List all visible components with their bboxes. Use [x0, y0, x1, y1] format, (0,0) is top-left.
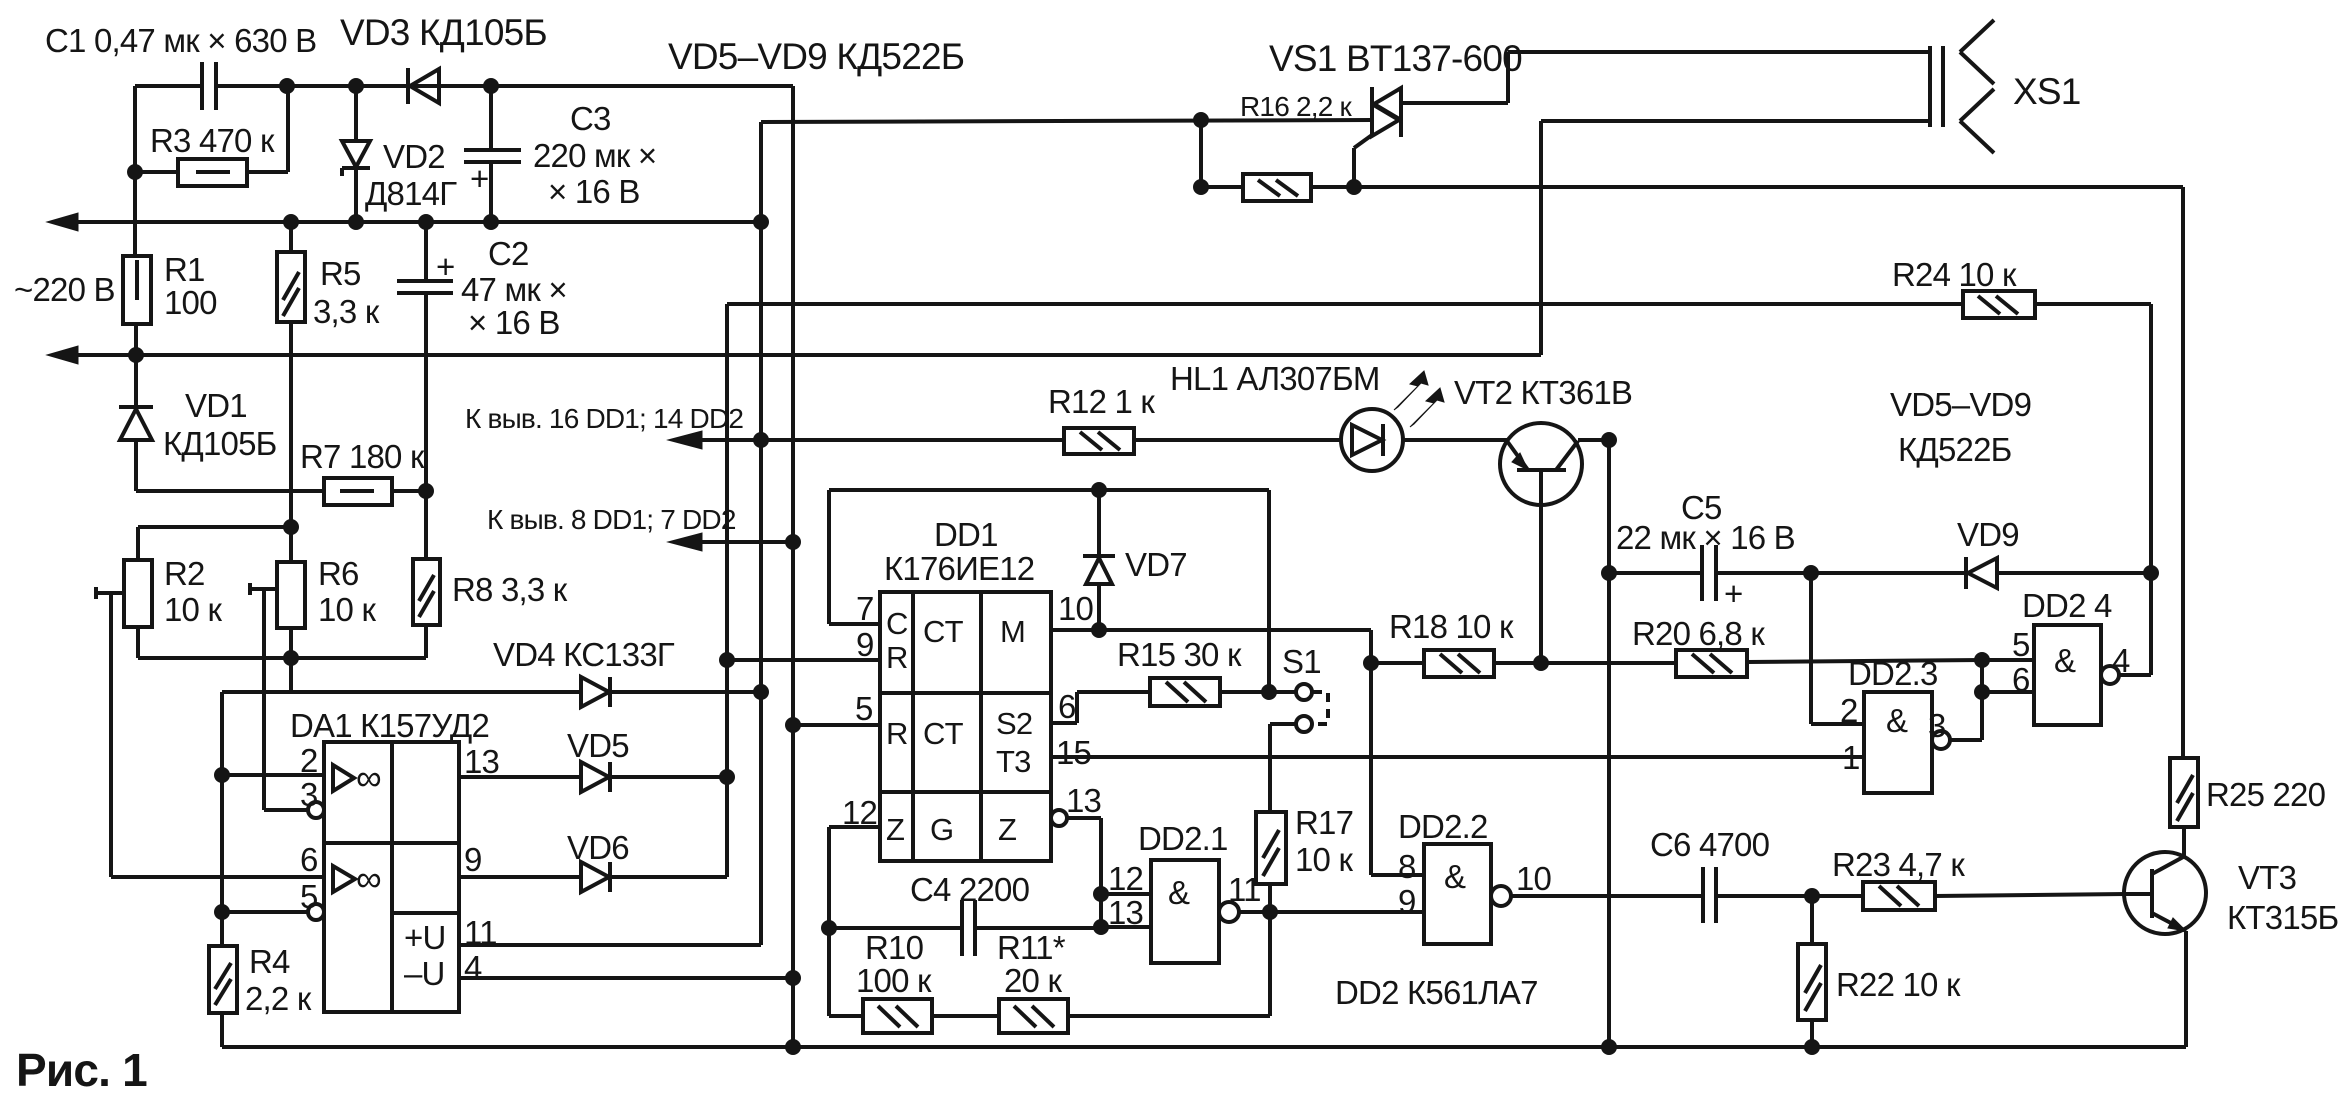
- wire R8 bottom: [424, 625, 428, 658]
- svg-text:~220 В: ~220 В: [14, 271, 115, 308]
- resistor R10: [829, 1014, 863, 1018]
- node 761/R12 row: [753, 432, 769, 448]
- node R3 left: [127, 164, 143, 180]
- pin 10: [1491, 886, 1511, 906]
- svg-text:R: R: [886, 640, 908, 675]
- node top rail / C3: [483, 78, 499, 94]
- wire R1 bottom: [134, 324, 138, 355]
- wire R5 top: [289, 222, 293, 252]
- wire pin4 row: [459, 976, 795, 980]
- node pin2: [214, 767, 230, 783]
- svg-text:13: 13: [1066, 782, 1101, 819]
- node top rail / R3 riser: [279, 78, 295, 94]
- wire R2 top loop: [136, 527, 140, 560]
- arrow to 8 DD1 7 DD2: [680, 540, 793, 544]
- svg-text:3: 3: [1928, 707, 1946, 744]
- wire bottom bus R2 R6 R8: [136, 627, 140, 658]
- svg-text:R12 1 к: R12 1 к: [1048, 383, 1155, 420]
- svg-text:DD2.2: DD2.2: [1398, 808, 1488, 845]
- svg-text:S1: S1: [1282, 643, 1321, 680]
- wire pin10 row: [1051, 628, 1371, 632]
- svg-text:R1: R1: [164, 251, 205, 288]
- wire pin13 row: [459, 775, 581, 779]
- svg-text:R18 10 к: R18 10 к: [1389, 608, 1514, 645]
- resistor R7: [324, 478, 392, 505]
- diode VD1: [134, 355, 138, 407]
- resistor R18: [1371, 661, 1424, 665]
- wire pin3 vertical: [262, 589, 266, 810]
- svg-text:R25 220: R25 220: [2206, 776, 2326, 813]
- node VD9 / R24 riser: [2143, 565, 2159, 581]
- svg-text:К выв. 16 DD1; 14 DD2: К выв. 16 DD1; 14 DD2: [465, 403, 743, 434]
- node DD2.1 out / R17: [1262, 904, 1278, 920]
- svg-text:КТ315Б: КТ315Б: [2227, 899, 2338, 936]
- svg-text:VD5: VD5: [567, 727, 629, 764]
- svg-text:+: +: [436, 248, 454, 285]
- LED HL1: [1341, 409, 1403, 471]
- wire R5 bottom to R6: [289, 322, 293, 562]
- svg-text:R22 10 к: R22 10 к: [1836, 966, 1961, 1003]
- svg-text:CT: CT: [923, 614, 964, 649]
- node C5 / DD2.3 pin2 riser: [1803, 565, 1819, 581]
- wire R3 right riser: [286, 86, 290, 172]
- svg-text:5: 5: [300, 878, 318, 915]
- svg-text:Д814Г: Д814Г: [365, 175, 457, 212]
- svg-text:× 16 В: × 16 В: [548, 173, 640, 210]
- svg-text:VD7: VD7: [1125, 546, 1187, 583]
- wire DD1 pin5 row: [793, 723, 880, 727]
- resistor R1: [123, 256, 151, 324]
- diode VD9: [1964, 557, 1968, 589]
- node R2/R6 top: [283, 519, 299, 535]
- wire DA1 left column: [220, 692, 224, 946]
- svg-text:Рис. 1: Рис. 1: [16, 1044, 147, 1096]
- svg-text:Z: Z: [998, 812, 1016, 847]
- svg-text:C3: C3: [570, 100, 611, 137]
- node R7 right / C2 / R8: [418, 483, 434, 499]
- svg-text:2: 2: [1840, 692, 1858, 729]
- pin 8: [1371, 873, 1424, 877]
- wire pin11 row: [459, 943, 761, 947]
- svg-text:G: G: [930, 812, 953, 847]
- svg-text:–U: –U: [404, 955, 445, 992]
- svg-text:VD2: VD2: [383, 138, 445, 175]
- node C4 row: [821, 920, 837, 936]
- wire R6 tap: [250, 587, 277, 591]
- svg-text:VT2 КТ361В: VT2 КТ361В: [1454, 374, 1632, 411]
- svg-text:6: 6: [1058, 688, 1076, 725]
- node R18/VT2 base: [1533, 655, 1549, 671]
- capacitor C5: [1700, 545, 1704, 601]
- svg-text:DD2.3: DD2.3: [1848, 655, 1938, 692]
- resistor R3: [178, 159, 247, 186]
- svg-text:20 к: 20 к: [1004, 962, 1062, 999]
- resistor R25: [2170, 758, 2198, 827]
- svg-text:R: R: [886, 716, 908, 751]
- svg-text:R7 180 к: R7 180 к: [300, 438, 425, 475]
- node 795/bottom rail: [785, 1039, 801, 1055]
- node VD5 row: [719, 769, 735, 785]
- wire R4 bottom to rail: [220, 1013, 224, 1047]
- svg-text:&: &: [2054, 642, 2076, 679]
- svg-text:VD4 КС133Г: VD4 КС133Г: [493, 636, 675, 673]
- wire pin15 row: [1051, 755, 1864, 759]
- svg-text:+: +: [1724, 575, 1742, 612]
- diode VD3: [406, 68, 410, 104]
- node collector rail / C5: [1601, 565, 1617, 581]
- svg-text:R20 6,8 к: R20 6,8 к: [1632, 615, 1765, 652]
- svg-text:6: 6: [300, 841, 318, 878]
- node DD2.4 pin5: [1974, 652, 1990, 668]
- wire triac to XS1 top: [1506, 52, 1510, 103]
- node pin5: [214, 904, 230, 920]
- diode VD4: [581, 677, 609, 707]
- svg-text:9: 9: [464, 841, 482, 878]
- svg-text:DD2 4: DD2 4: [2022, 587, 2112, 624]
- svg-text:M: M: [1000, 614, 1025, 649]
- node R16 riser: [1193, 112, 1209, 128]
- svg-text:R16 2,2 к: R16 2,2 к: [1240, 91, 1352, 122]
- svg-text:22 мк × 16 В: 22 мк × 16 В: [1616, 519, 1795, 556]
- node rail1 / C2: [418, 214, 434, 230]
- svg-text:DA1 К157УД2: DA1 К157УД2: [290, 707, 489, 744]
- gate DD2.4: [2034, 625, 2101, 725]
- svg-text:XS1: XS1: [2013, 71, 2081, 112]
- wire VD4 row: [222, 690, 581, 694]
- capacitor C3: [489, 86, 493, 150]
- switch S1: [1296, 684, 1312, 700]
- svg-text:VD3 КД105Б: VD3 КД105Б: [340, 12, 547, 53]
- svg-text:9: 9: [1398, 883, 1416, 920]
- wire mains rail 2 y=355: [60, 353, 1541, 357]
- wire R2 tap: [96, 591, 124, 595]
- svg-text:4: 4: [464, 949, 482, 986]
- svg-text:R3 470 к: R3 470 к: [150, 122, 275, 159]
- svg-text:10 к: 10 к: [164, 591, 222, 628]
- wire mains rail 1 y=222: [60, 220, 761, 224]
- node rail1 / R5: [283, 214, 299, 230]
- wire pin2 row: [222, 773, 324, 777]
- node pin12 DD2.1: [1093, 886, 1109, 902]
- resistor R15: [1150, 678, 1220, 706]
- svg-text:47 мк ×: 47 мк ×: [461, 271, 567, 308]
- svg-text:2: 2: [300, 742, 318, 779]
- node DD2.4 pin6: [1974, 684, 1990, 700]
- node 795/DD1 pin5: [785, 717, 801, 733]
- svg-text:12: 12: [1108, 860, 1143, 897]
- node 761/VD4 row: [753, 684, 769, 700]
- capacitor C1: [200, 62, 204, 110]
- pin 5: [308, 904, 324, 920]
- svg-text:9: 9: [856, 626, 874, 663]
- svg-text:× 16 В: × 16 В: [468, 304, 560, 341]
- resistor R11: [932, 1014, 999, 1018]
- svg-text:К выв. 8 DD1; 7 DD2: К выв. 8 DD1; 7 DD2: [487, 504, 736, 535]
- svg-text:C: C: [886, 606, 908, 641]
- node rail2 / R1 VD1: [128, 347, 144, 363]
- svg-text:1: 1: [1842, 739, 1860, 776]
- svg-text:3: 3: [300, 776, 318, 813]
- svg-text:+: +: [470, 160, 488, 197]
- svg-text:C6 4700: C6 4700: [1650, 826, 1770, 863]
- svg-text:HL1 АЛ307БМ: HL1 АЛ307БМ: [1170, 360, 1380, 397]
- svg-text:10: 10: [1516, 860, 1552, 897]
- svg-text:R5: R5: [320, 255, 361, 292]
- connector XS1: [1928, 46, 1932, 127]
- resistor R24: [1963, 291, 2035, 318]
- svg-text:13: 13: [464, 743, 499, 780]
- wire vertical x=727: [725, 304, 729, 877]
- node collector rail / bottom: [1601, 1039, 1617, 1055]
- gate DD2.3: [1864, 692, 1932, 793]
- svg-text:+U: +U: [404, 919, 446, 956]
- svg-text:∞: ∞: [356, 858, 381, 899]
- svg-text:C4 2200: C4 2200: [910, 871, 1030, 908]
- diode VD7: [1097, 490, 1101, 556]
- svg-text:100 к: 100 к: [856, 962, 932, 999]
- wire pin9 row: [459, 875, 581, 879]
- IC DD1: [880, 592, 1051, 861]
- wire DD1 pin12 loop: [829, 825, 880, 829]
- svg-text:220 мк ×: 220 мк ×: [533, 137, 656, 174]
- svg-text:R6: R6: [318, 555, 359, 592]
- wire x=761 top corner to triac: [761, 120, 1372, 122]
- svg-text:C1 0,47 мк × 630 В: C1 0,47 мк × 630 В: [45, 22, 316, 59]
- resistor R8: [413, 559, 440, 625]
- svg-text:R23 4,7 к: R23 4,7 к: [1832, 846, 1965, 883]
- wire C1 left vertical: [133, 86, 137, 256]
- svg-text:∞: ∞: [356, 757, 381, 798]
- svg-text:3,3 к: 3,3 к: [313, 293, 380, 330]
- resistor R17: [1256, 812, 1286, 884]
- svg-text:R8 3,3 к: R8 3,3 к: [452, 571, 568, 608]
- svg-text:DD2 К561ЛА7: DD2 К561ЛА7: [1335, 974, 1538, 1011]
- svg-text:R4: R4: [249, 943, 290, 980]
- capacitor C6: [1701, 867, 1705, 923]
- node R16 / gate: [1346, 179, 1362, 195]
- node R22 / bottom rail: [1804, 1039, 1820, 1055]
- svg-text:CT: CT: [923, 716, 964, 751]
- triac VS1: [1370, 87, 1374, 137]
- wire R6 bottom to VD4 row: [289, 628, 293, 692]
- wire pin5 row: [222, 910, 308, 914]
- wire C5 row: [1609, 571, 1702, 575]
- resistor R2: [124, 560, 152, 627]
- resistor R20: [1676, 650, 1747, 677]
- arrow to 16 DD1 14 DD2: [680, 438, 761, 442]
- wire R12 row: [761, 438, 1064, 442]
- wire top rail y=86: [135, 84, 202, 88]
- wire pin6 left vertical: [109, 593, 113, 877]
- pin 3: [308, 802, 324, 818]
- wire R8 top: [424, 491, 428, 559]
- node 795/arrow2: [785, 534, 801, 550]
- node pin10/R18: [1363, 655, 1379, 671]
- gate DD2.2: [1424, 844, 1491, 944]
- svg-text:15: 15: [1056, 734, 1091, 771]
- svg-text:2,2 к: 2,2 к: [245, 980, 312, 1017]
- capacitor C2: [424, 222, 428, 281]
- svg-text:VD1: VD1: [185, 387, 247, 424]
- svg-text:5: 5: [2012, 626, 2030, 663]
- svg-text:КД105Б: КД105Б: [163, 425, 277, 462]
- svg-text:10: 10: [1058, 590, 1094, 627]
- resistor R12: [1064, 428, 1134, 454]
- pin13 Z circle: [1051, 810, 1067, 826]
- transistor VT2: [1500, 423, 1582, 505]
- wire DD1 pin9 row: [727, 658, 880, 662]
- node C6 / R22: [1804, 888, 1820, 904]
- svg-text:R11*: R11*: [997, 929, 1066, 966]
- zener VD2: [354, 86, 358, 141]
- svg-text:VD9: VD9: [1957, 516, 2019, 553]
- resistor R23: [1863, 882, 1935, 910]
- svg-text:VD5–VD9 КД522Б: VD5–VD9 КД522Б: [668, 36, 964, 77]
- gate DD2.1: [1151, 860, 1219, 963]
- svg-text:100: 100: [164, 284, 217, 321]
- node frame/VD7 top: [1091, 482, 1107, 498]
- svg-text:R2: R2: [164, 555, 205, 592]
- svg-text:S2: S2: [996, 706, 1032, 741]
- op-amp DA1: [324, 742, 459, 1012]
- node pin13 DD2.1: [1093, 919, 1109, 935]
- svg-text:C2: C2: [488, 235, 529, 272]
- diode VD5: [581, 762, 609, 792]
- svg-text:DD2.1: DD2.1: [1138, 820, 1228, 857]
- transistor VT3: [2124, 852, 2206, 934]
- wire vertical x=795: [791, 86, 795, 1047]
- node 795/-U: [785, 970, 801, 986]
- wire S1 lower to R17: [1270, 722, 1297, 726]
- svg-text:7: 7: [856, 590, 874, 627]
- wire right rail R16 to R25: [2181, 187, 2185, 758]
- resistor R5: [277, 252, 305, 322]
- svg-text:8: 8: [1398, 848, 1416, 885]
- svg-text:&: &: [1168, 874, 1190, 911]
- node 727/pin9 row: [719, 652, 735, 668]
- svg-text:T3: T3: [996, 744, 1031, 779]
- svg-text:10 к: 10 к: [318, 591, 376, 628]
- svg-text:VS1 BT137-600: VS1 BT137-600: [1269, 38, 1522, 79]
- capacitor C4: [829, 926, 962, 930]
- svg-text:VD6: VD6: [567, 829, 629, 866]
- node R15 / DD1 frame: [1261, 684, 1277, 700]
- svg-text:10 к: 10 к: [1295, 841, 1353, 878]
- svg-text:DD1: DD1: [934, 516, 998, 553]
- resistor R22: [1810, 896, 1814, 944]
- svg-text:R17: R17: [1295, 804, 1353, 841]
- wire rail2 riser to XS1 bottom: [1539, 121, 1543, 355]
- wire vertical x=761 top: [759, 122, 763, 692]
- wire R24 row: [727, 302, 1963, 306]
- node bus / R6: [283, 650, 299, 666]
- svg-text:VD5–VD9: VD5–VD9: [1890, 386, 2031, 423]
- resistor R16: [1201, 185, 1243, 189]
- svg-text:Z: Z: [886, 812, 904, 847]
- node rail1 / VD2: [348, 214, 364, 230]
- svg-text:R24 10 к: R24 10 к: [1892, 256, 2017, 293]
- svg-text:К176ИЕ12: К176ИЕ12: [884, 550, 1034, 587]
- IC DD1 frame top: [829, 488, 1269, 492]
- wire VT3 collector: [2182, 827, 2186, 857]
- wire DD1 pin6 to R15: [1051, 721, 1077, 725]
- resistor R6: [277, 562, 305, 628]
- svg-text:6: 6: [2012, 661, 2030, 698]
- wire VT3 emitter to rail: [2184, 931, 2188, 1047]
- svg-text:&: &: [1444, 858, 1466, 895]
- svg-text:13: 13: [1108, 894, 1143, 931]
- node top rail / VD2: [348, 78, 364, 94]
- svg-text:4: 4: [2112, 642, 2130, 679]
- diode VD6: [581, 862, 609, 892]
- wire bottom rail: [222, 1045, 2186, 1049]
- svg-text:&: &: [1886, 702, 1908, 739]
- resistor R4: [209, 946, 237, 1013]
- node rail1 right end: [753, 214, 769, 230]
- svg-text:VT3: VT3: [2238, 859, 2296, 896]
- svg-text:R10: R10: [865, 929, 924, 966]
- svg-text:КД522Б: КД522Б: [1898, 431, 2012, 468]
- svg-text:R15 30 к: R15 30 к: [1117, 636, 1242, 673]
- node rail1 / C3: [483, 214, 499, 230]
- svg-text:5: 5: [855, 690, 873, 727]
- wire VT2 collector corner: [1578, 438, 1609, 442]
